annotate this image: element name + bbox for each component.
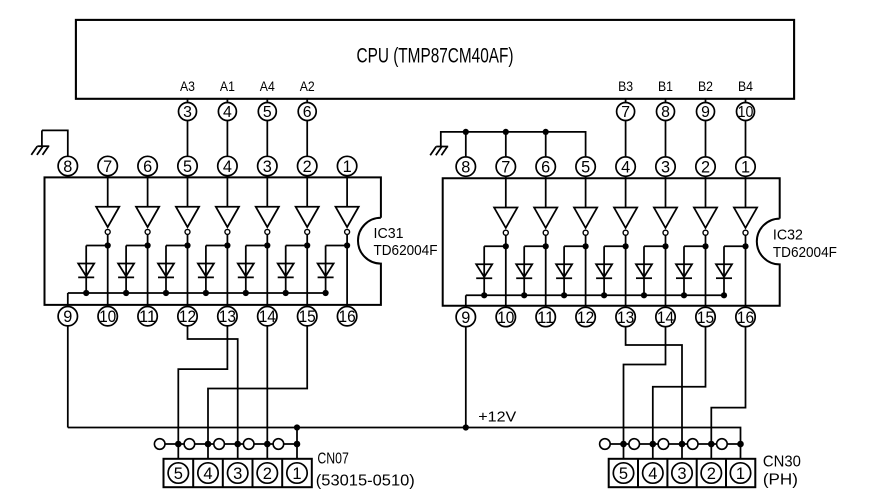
svg-text:4: 4 <box>203 465 212 483</box>
svg-text:IC32: IC32 <box>773 228 803 244</box>
svg-text:5: 5 <box>183 158 192 176</box>
svg-text:15: 15 <box>299 308 316 326</box>
svg-text:9: 9 <box>461 309 470 327</box>
svg-text:8: 8 <box>661 104 670 121</box>
svg-text:(PH): (PH) <box>763 472 798 489</box>
svg-text:CN07: CN07 <box>317 450 349 467</box>
svg-text:CPU (TMP87CM40AF): CPU (TMP87CM40AF) <box>357 44 514 68</box>
svg-text:6: 6 <box>143 158 152 176</box>
svg-text:12: 12 <box>179 308 196 326</box>
svg-text:TD62004F: TD62004F <box>374 243 438 259</box>
svg-text:4: 4 <box>648 465 657 483</box>
svg-text:(53015-0510): (53015-0510) <box>316 473 415 490</box>
svg-text:2: 2 <box>303 158 312 176</box>
svg-text:10: 10 <box>497 309 514 327</box>
svg-text:7: 7 <box>501 159 510 177</box>
svg-text:8: 8 <box>461 159 470 177</box>
svg-text:16: 16 <box>737 309 754 327</box>
svg-text:4: 4 <box>621 159 630 177</box>
svg-text:13: 13 <box>219 308 236 326</box>
svg-text:A3: A3 <box>180 79 195 94</box>
svg-text:6: 6 <box>303 104 312 121</box>
svg-text:9: 9 <box>63 308 72 326</box>
svg-text:1: 1 <box>741 159 750 177</box>
svg-text:1: 1 <box>292 465 301 483</box>
svg-text:+12V: +12V <box>478 410 516 426</box>
svg-text:B1: B1 <box>658 79 673 94</box>
svg-text:12: 12 <box>577 309 594 327</box>
svg-text:13: 13 <box>617 309 634 327</box>
svg-text:11: 11 <box>537 309 554 327</box>
svg-text:A1: A1 <box>220 79 235 94</box>
svg-text:7: 7 <box>621 104 630 121</box>
svg-text:TD62004F: TD62004F <box>773 245 837 261</box>
svg-text:CN30: CN30 <box>763 454 801 471</box>
svg-text:B4: B4 <box>738 79 753 94</box>
svg-text:14: 14 <box>657 309 674 327</box>
svg-text:3: 3 <box>263 158 272 176</box>
svg-text:3: 3 <box>677 465 686 483</box>
svg-text:IC31: IC31 <box>374 226 404 242</box>
svg-text:2: 2 <box>701 159 710 177</box>
svg-text:4: 4 <box>223 104 232 121</box>
svg-text:16: 16 <box>339 308 356 326</box>
svg-text:6: 6 <box>541 159 550 177</box>
svg-text:15: 15 <box>697 309 714 327</box>
svg-text:3: 3 <box>661 159 670 177</box>
svg-text:10: 10 <box>738 104 754 121</box>
svg-text:1: 1 <box>736 465 745 483</box>
svg-text:3: 3 <box>233 465 242 483</box>
svg-text:11: 11 <box>139 308 156 326</box>
svg-text:9: 9 <box>701 104 710 121</box>
svg-text:2: 2 <box>707 465 716 483</box>
svg-text:7: 7 <box>103 158 112 176</box>
svg-text:B2: B2 <box>698 79 713 94</box>
svg-text:5: 5 <box>619 465 628 483</box>
svg-text:8: 8 <box>63 158 72 176</box>
svg-text:1: 1 <box>343 158 352 176</box>
svg-text:2: 2 <box>263 465 272 483</box>
svg-text:A2: A2 <box>300 79 315 94</box>
svg-text:5: 5 <box>263 104 272 121</box>
svg-text:4: 4 <box>223 158 232 176</box>
svg-text:3: 3 <box>183 104 192 121</box>
svg-text:B3: B3 <box>618 79 633 94</box>
svg-text:A4: A4 <box>260 79 275 94</box>
svg-text:10: 10 <box>99 308 116 326</box>
svg-text:14: 14 <box>259 308 276 326</box>
svg-text:5: 5 <box>174 465 183 483</box>
svg-text:5: 5 <box>581 159 590 177</box>
